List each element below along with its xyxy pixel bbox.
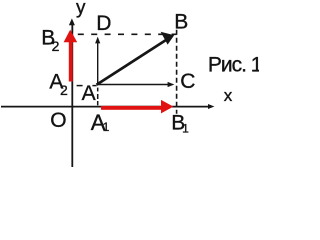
svg-text:x: x xyxy=(224,86,233,105)
dashed line B to B1 (vertical, x=176.6) xyxy=(176,30,178,114)
thin arrow A to C (horizontal component helper) xyxy=(97,84,170,86)
y-axis xyxy=(71,22,73,168)
svg-text:1: 1 xyxy=(182,122,189,136)
svg-text:2: 2 xyxy=(52,38,60,54)
svg-text:2: 2 xyxy=(60,82,68,98)
dashed line A to A1 (vertical, x=97.7) xyxy=(97,88,99,92)
svg-text:C: C xyxy=(180,70,195,93)
svg-text:D: D xyxy=(96,12,111,35)
svg-text:y: y xyxy=(76,0,86,19)
svg-text:B: B xyxy=(174,11,188,34)
y-axis segment through red arrowhead apex xyxy=(71,22,73,33)
svg-text:O: O xyxy=(50,109,66,132)
thin arrow A to D (vertical component helper) xyxy=(97,43,99,86)
svg-text:Рис. 1: Рис. 1 xyxy=(208,54,259,77)
svg-text:A: A xyxy=(82,82,96,105)
red component arrow A2 to B2 (on y-axis) xyxy=(69,42,73,82)
vector A to B (thick arrow) xyxy=(97,40,167,85)
dashed line A2 to A (horizontal, y=85.6) xyxy=(77,85,83,87)
dashed line B2 to B (horizontal, y=34.3) xyxy=(78,33,177,35)
svg-text:1: 1 xyxy=(103,120,110,134)
red component arrow A1 to B1 (on x-axis) xyxy=(101,106,162,110)
x-axis xyxy=(1,106,209,108)
